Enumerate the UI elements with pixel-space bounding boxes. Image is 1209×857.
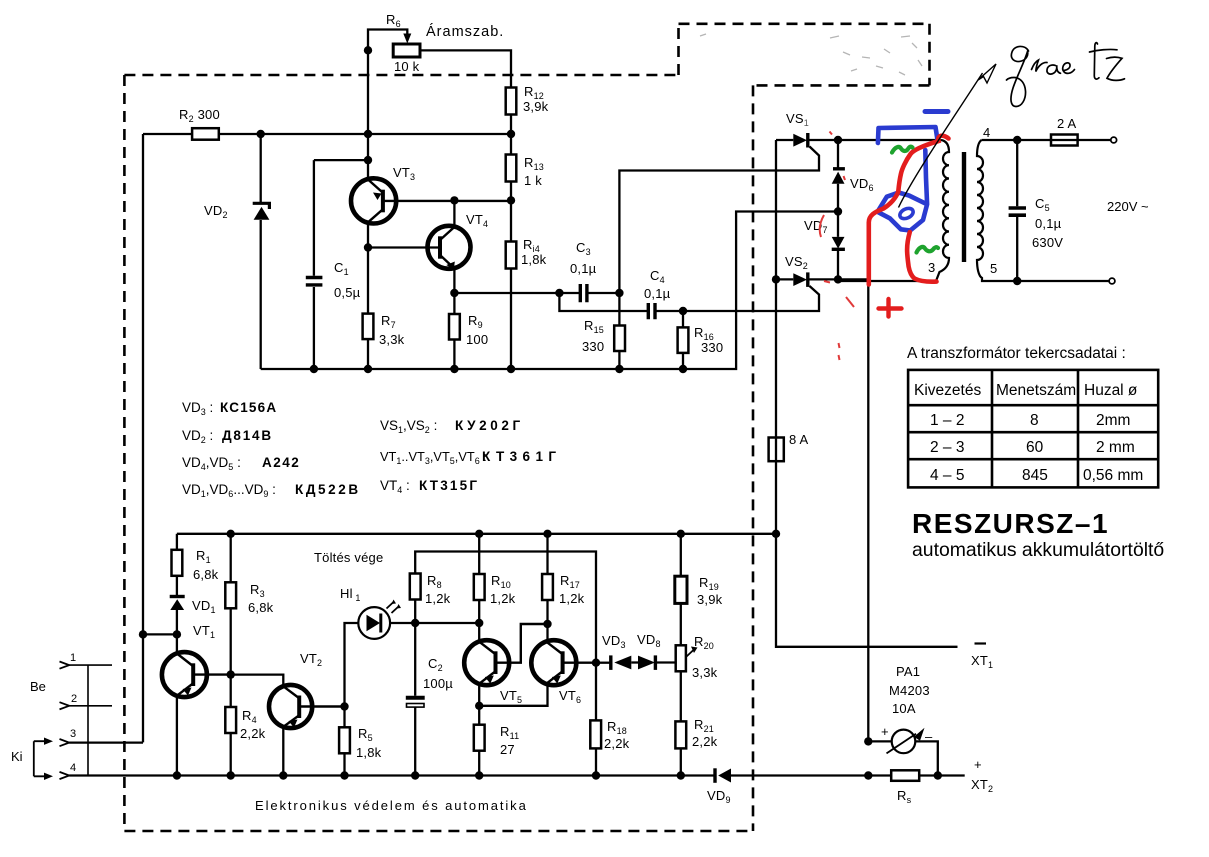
potentiometer R6 10k xyxy=(393,44,420,57)
node C4 out / R16 xyxy=(679,307,687,315)
node VT2 base / R5 / HL1 xyxy=(340,702,348,710)
wire R12-R13 xyxy=(510,115,512,155)
diode VD9 xyxy=(713,768,716,783)
node rail R15 xyxy=(615,365,623,373)
transformer core xyxy=(962,152,966,262)
connector pin 1 xyxy=(60,662,70,669)
svg-text:Huzal ø: Huzal ø xyxy=(1084,382,1138,399)
node rail R21 xyxy=(677,771,685,779)
dashed annex box top-right xyxy=(679,24,930,86)
diode VD7 xyxy=(837,212,839,280)
svg-text:VT1..VT3,VT5,VT6 :: VT1..VT3,VT5,VT6 : xyxy=(380,449,487,466)
svg-text:0,1µ: 0,1µ xyxy=(570,261,597,276)
resistor R1 xyxy=(176,534,178,550)
node rail R3 xyxy=(227,530,235,538)
wire 220V bottom xyxy=(1017,280,1109,282)
connector pin 4 xyxy=(60,772,70,779)
node VT4 collector top xyxy=(450,196,458,204)
svg-text:3: 3 xyxy=(70,728,76,740)
resistor R14 xyxy=(506,242,517,269)
resistor R7 xyxy=(363,314,374,340)
wire LED right row xyxy=(390,622,479,624)
wire pot right to R12 xyxy=(420,50,511,87)
svg-text:M4203: M4203 xyxy=(889,683,930,698)
capacitor C2 xyxy=(414,623,416,776)
transistor VT3 xyxy=(367,50,369,313)
connector tie bar xyxy=(87,665,89,775)
svg-text:2 A: 2 A xyxy=(1057,116,1077,131)
node C4 branch xyxy=(555,289,563,297)
wire R14 bottom to rail xyxy=(510,269,512,370)
svg-text:5: 5 xyxy=(990,261,997,276)
svg-text:Elektronikus védelem és aut: Elektronikus védelem és automatika xyxy=(255,798,528,813)
svg-text:1,2k: 1,2k xyxy=(559,591,585,606)
svg-text:2,2k: 2,2k xyxy=(240,726,266,741)
hand-drawn red curve top xyxy=(898,136,948,192)
svg-text:1,2k: 1,2k xyxy=(490,591,516,606)
terminal XT1 xyxy=(975,642,987,644)
svg-text:Menetszám: Menetszám xyxy=(996,382,1076,399)
svg-text:10 k: 10 k xyxy=(394,59,420,74)
svg-text:330: 330 xyxy=(701,340,723,355)
node R13/R14 base xyxy=(507,196,515,204)
connector pin 2 xyxy=(60,702,70,709)
red accent marks near VD7 and VS2 xyxy=(820,132,854,361)
svg-text:630V: 630V xyxy=(1032,235,1063,250)
hand-drawn blue bridge sketch xyxy=(878,150,928,231)
node LED/C2 xyxy=(411,619,419,627)
diode VD6 xyxy=(837,140,839,212)
wire transformer pin1 top xyxy=(838,139,941,141)
svg-text:КД522В: КД522В xyxy=(295,482,361,497)
wire 220V top with fuse 2A xyxy=(1017,139,1111,141)
svg-text:27: 27 xyxy=(500,742,515,757)
fuse 8A xyxy=(769,438,784,462)
wire C4 row xyxy=(559,286,819,311)
svg-text:Áramszab.: Áramszab. xyxy=(426,23,504,40)
node rail2 right xyxy=(772,530,780,538)
svg-text:0,1µ: 0,1µ xyxy=(644,286,671,301)
hand-drawn red left vertical xyxy=(869,192,899,285)
node rail R16 xyxy=(679,365,687,373)
svg-text:PA1: PA1 xyxy=(896,664,920,679)
svg-text:2,2k: 2,2k xyxy=(604,736,630,751)
handwritten Graetz xyxy=(1007,43,1125,107)
svg-text:3,3k: 3,3k xyxy=(379,332,405,347)
svg-text:4 – 5: 4 – 5 xyxy=(930,467,964,484)
node rail R10 xyxy=(475,530,483,538)
diode VD3 xyxy=(596,662,611,664)
hand-drawn blue bracket over pin1 wire xyxy=(878,127,938,143)
resistor R4 xyxy=(230,675,232,707)
node C3 out xyxy=(615,289,623,297)
node VT4 emitter xyxy=(450,289,458,297)
node R2/VT3 column xyxy=(364,130,372,138)
svg-text:1 – 2: 1 – 2 xyxy=(930,412,964,429)
node rail R14 xyxy=(507,365,515,373)
svg-text:3,9k: 3,9k xyxy=(523,99,549,114)
shunt resistor Rs xyxy=(891,770,919,781)
svg-text:КС156А: КС156А xyxy=(220,400,277,415)
wire C3 row xyxy=(454,292,619,294)
svg-text:6,8k: 6,8k xyxy=(248,600,274,615)
node tie right xyxy=(173,630,181,638)
transistor VT4 xyxy=(368,200,454,293)
ammeter PA1 xyxy=(868,741,938,775)
resistor R15 xyxy=(618,293,620,326)
svg-text:3,9k: 3,9k xyxy=(697,592,723,607)
resistor R17 xyxy=(546,534,548,641)
LED HL1 xyxy=(345,623,359,707)
resistor R9 xyxy=(453,293,455,314)
transformer secondary winding 4-5 xyxy=(977,140,1017,281)
capacitor C1 xyxy=(314,160,368,369)
node rail R4 xyxy=(227,771,235,779)
transistor VT5 xyxy=(464,640,509,685)
capacitor C4 xyxy=(648,303,655,319)
svg-text:2: 2 xyxy=(71,693,77,705)
Ki bracket xyxy=(34,741,45,776)
node VT5 base loop / R17 xyxy=(543,620,551,628)
node junction R6 left xyxy=(364,46,372,54)
node C5 bottom xyxy=(1013,277,1021,285)
node rail R5 xyxy=(340,771,348,779)
diode VD8 xyxy=(631,661,638,663)
capacitor C5 xyxy=(1016,140,1018,281)
svg-text:1,2k: 1,2k xyxy=(425,591,451,606)
transistor VT1 xyxy=(162,652,207,697)
thyristor VS2 xyxy=(776,278,838,280)
transistor VT2 xyxy=(269,685,312,728)
svg-text:100µ: 100µ xyxy=(423,676,453,691)
svg-text:КУ202Г: КУ202Г xyxy=(455,418,524,433)
svg-text:VD2 :: VD2 : xyxy=(182,428,213,445)
node tie left xyxy=(139,630,147,638)
wire sense tie xyxy=(143,633,177,635)
node C1/VT3 emitter xyxy=(364,156,372,164)
svg-text:Be: Be xyxy=(30,679,46,694)
node meter branch xyxy=(864,737,872,745)
svg-text:3,3k: 3,3k xyxy=(692,665,718,680)
node rail R17 xyxy=(543,530,551,538)
node VT6 base / VD3 xyxy=(592,659,600,667)
hand-drawn blue oval xyxy=(898,206,915,220)
hand-drawn red right path to pin3 xyxy=(907,232,936,282)
svg-text:А242: А242 xyxy=(262,455,300,470)
wire bottom rail xyxy=(69,774,965,776)
node rail R18 xyxy=(592,771,600,779)
svg-text:1 k: 1 k xyxy=(524,173,542,188)
resistor R21 xyxy=(680,671,682,775)
svg-text:Ki: Ki xyxy=(11,749,23,764)
node VT3 collector branch xyxy=(364,243,372,251)
svg-text:10A: 10A xyxy=(892,701,916,716)
node R2/VD2 xyxy=(257,130,265,138)
potentiometer R20 xyxy=(676,645,686,671)
node rail C1 xyxy=(310,365,318,373)
resistor R2 xyxy=(192,128,219,140)
resistor R8 with top loop to VD3 node xyxy=(415,552,596,663)
node emitters/R11 xyxy=(475,702,483,710)
node VS2 anode xyxy=(772,275,780,283)
node VD6/VD7 xyxy=(834,207,842,215)
node C5 top xyxy=(1013,136,1021,144)
svg-text:1: 1 xyxy=(70,652,76,664)
wire upper ground rail xyxy=(261,212,838,370)
wire VT5 emitter row xyxy=(479,684,547,706)
svg-text:2 mm: 2 mm xyxy=(1096,439,1135,456)
thyristor VS1 xyxy=(776,139,838,141)
fuse 2A xyxy=(1051,135,1078,146)
node rail R11 xyxy=(475,771,483,779)
wire VT1 base to VT2 collector xyxy=(231,675,284,686)
node Rs right xyxy=(934,771,942,779)
svg-text:0,5µ: 0,5µ xyxy=(334,285,361,300)
resistor R16 xyxy=(682,311,684,327)
node rail C2 xyxy=(411,771,419,779)
svg-text:VD3 :: VD3 : xyxy=(182,400,213,417)
resistor R10 xyxy=(478,534,480,641)
svg-text:845: 845 xyxy=(1022,467,1048,484)
svg-text:A transzformátor tekercsadatai: A transzformátor tekercsadatai : xyxy=(907,345,1126,362)
svg-text:3: 3 xyxy=(928,260,935,275)
svg-text:КТ315Г: КТ315Г xyxy=(419,478,479,493)
hand-drawn green squiggle top xyxy=(892,147,913,153)
svg-text:100: 100 xyxy=(466,332,488,347)
node rail R7 xyxy=(364,365,372,373)
transformer primary winding 1-2-3 xyxy=(838,140,949,281)
resistor R12 xyxy=(506,88,517,115)
wire VS1 gate line xyxy=(619,147,819,294)
hand-drawn red plus xyxy=(879,299,902,317)
node rail R9 xyxy=(450,365,458,373)
svg-text:+: + xyxy=(974,757,982,772)
wire R13-R14 xyxy=(510,182,512,242)
svg-text:60: 60 xyxy=(1026,439,1044,456)
svg-text:0,56 mm: 0,56 mm xyxy=(1083,467,1143,484)
diode VD1 xyxy=(170,595,185,598)
node VS2 cathode xyxy=(834,275,842,283)
svg-text:automatikus akkumulátortöltő: automatikus akkumulátortöltő xyxy=(912,539,1164,561)
resistor R5 xyxy=(343,707,345,728)
svg-text:Töltés vége: Töltés vége xyxy=(314,550,383,565)
svg-text:2,2k: 2,2k xyxy=(692,734,718,749)
resistor R13 xyxy=(506,155,517,182)
svg-text:6,8k: 6,8k xyxy=(193,567,219,582)
svg-text:Д814В: Д814В xyxy=(222,428,273,443)
svg-text:2mm: 2mm xyxy=(1096,412,1130,429)
node VT1 base / R3 xyxy=(227,670,235,678)
terminal bottom 220V xyxy=(1109,278,1115,284)
node rail R19 xyxy=(677,530,685,538)
node rail VT1e xyxy=(173,771,181,779)
wire lower top rail xyxy=(177,533,776,535)
svg-text:4: 4 xyxy=(983,125,990,140)
svg-text:RESZURSZ–1: RESZURSZ–1 xyxy=(912,508,1109,539)
node VS1 cathode xyxy=(834,136,842,144)
svg-text:220V ~: 220V ~ xyxy=(1107,199,1149,214)
svg-text:1,8k: 1,8k xyxy=(356,745,382,760)
node R12/R13 xyxy=(507,130,515,138)
svg-text:+: + xyxy=(881,724,889,739)
node rail VT2e xyxy=(279,771,287,779)
node LED/R10 xyxy=(475,619,483,627)
wire positive column xyxy=(838,279,868,741)
annotation arrow to Graetz xyxy=(899,73,983,208)
wire R6 top loop xyxy=(368,30,407,51)
node rail Rs left xyxy=(864,771,872,779)
svg-text:8 A: 8 A xyxy=(789,432,809,447)
capacitor C3 xyxy=(580,284,587,302)
resistor R18 xyxy=(595,663,597,776)
resistor R3 xyxy=(230,534,232,675)
table grid xyxy=(908,370,1158,488)
hand-drawn green squiggle bottom xyxy=(917,247,939,253)
resistor R19 xyxy=(680,534,682,646)
svg-text:R2 300: R2 300 xyxy=(179,107,220,124)
dashed border main block xyxy=(124,75,753,831)
svg-text:VT4 :: VT4 : xyxy=(380,478,410,495)
svg-text:4: 4 xyxy=(70,762,76,774)
svg-text:Kivezetés: Kivezetés xyxy=(914,382,981,399)
wire left vertical (pin3 sense line) xyxy=(142,134,144,742)
R6 wiper arrow xyxy=(403,34,411,44)
svg-text:8: 8 xyxy=(1030,412,1039,429)
svg-text:–: – xyxy=(925,729,933,744)
wire VS anode column with 8A fuse and XT1 run xyxy=(776,140,958,647)
hand-drawn blue minus mark xyxy=(925,109,948,114)
faint pencil marks in annex xyxy=(700,34,922,75)
svg-text:2 – 3: 2 – 3 xyxy=(930,439,964,456)
svg-text:1,8k: 1,8k xyxy=(521,252,547,267)
connector pin 3 xyxy=(60,739,70,746)
svg-text:0,1µ: 0,1µ xyxy=(1035,216,1062,231)
wire R2 row xyxy=(143,133,511,135)
terminal top 220V xyxy=(1111,137,1117,143)
transistor VT6 xyxy=(531,640,576,685)
resistor R11 xyxy=(478,706,480,725)
svg-text:КТ361Г: КТ361Г xyxy=(482,449,561,464)
svg-text:330: 330 xyxy=(582,339,604,354)
zener diode VD2 xyxy=(260,134,262,369)
